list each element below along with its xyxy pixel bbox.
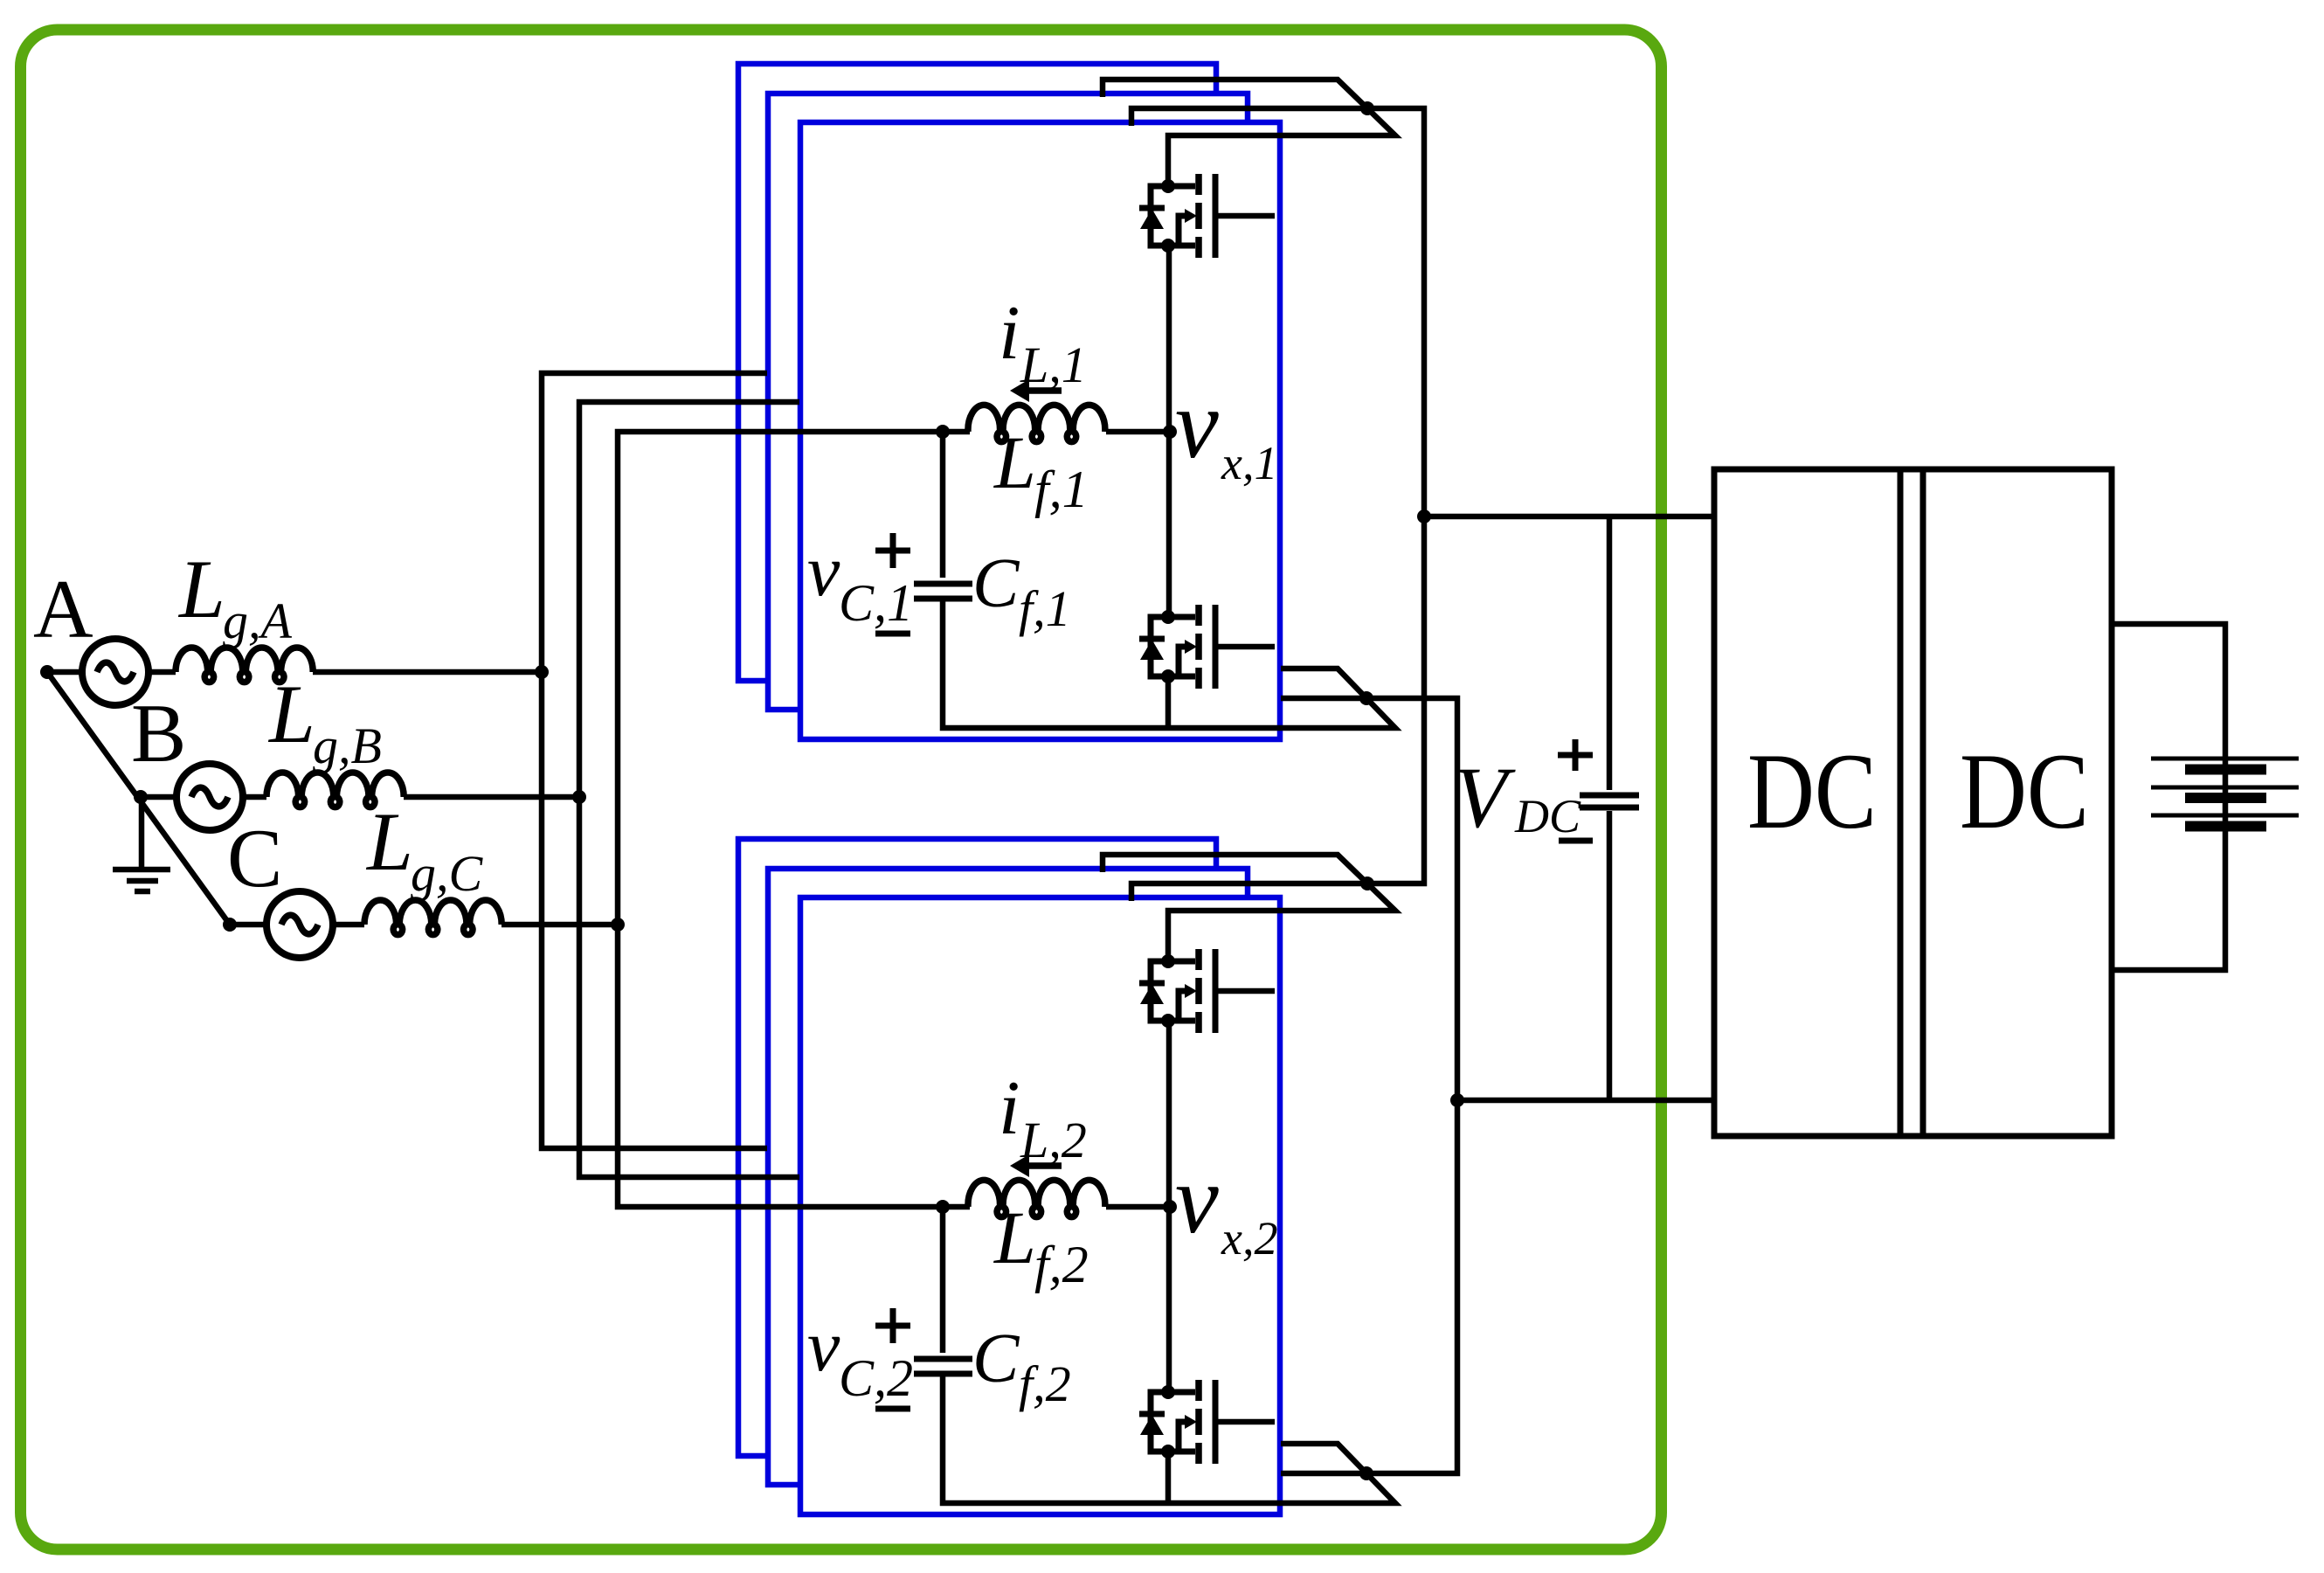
junction bottom bus module 2 (1359, 1466, 1373, 1480)
wire phase C bus bracket (618, 432, 970, 1207)
inductor Lf,1 (968, 405, 1105, 441)
wire source stub module 1 (1165, 676, 1172, 728)
svg-text:A: A (33, 563, 93, 655)
capacitor VDC (1580, 795, 1639, 807)
wire A dot to source (47, 669, 82, 676)
wire dc plus to converter (1424, 514, 1714, 520)
wire cap to bottom rail module 2 (943, 1376, 1395, 1503)
wire dc plus vertical bus (1131, 108, 1424, 901)
wire top bus back layer module 1 (1103, 80, 1395, 186)
converter module 1 front box (800, 122, 1280, 739)
wire dc cap bottom lead (1607, 811, 1613, 1100)
wire inductor node to cap module 1 (940, 432, 946, 578)
wire dc cap top lead (1607, 516, 1613, 790)
wire vx rail up module 2 (1166, 1022, 1172, 1207)
wire vx rail down module 1 (1166, 432, 1172, 617)
wire phase B to bus (404, 794, 579, 800)
transistor bottom mosfet module 2 (1139, 1380, 1275, 1464)
node vx,2 (1163, 1200, 1177, 1214)
plus sign vC,1 (875, 533, 910, 568)
transistor bottom mosfet module 1 (1139, 605, 1275, 689)
wire vx rail up module 1 (1166, 246, 1172, 432)
junction inductor node module 1 (936, 425, 950, 439)
svg-text:VDC: VDC (1454, 749, 1581, 846)
minus sign VDC (1559, 838, 1593, 844)
capacitor Cf,2 (914, 1359, 972, 1374)
arrow iL,1 (1027, 387, 1062, 394)
wire source A to coil (149, 669, 176, 676)
junction dc plus (1417, 509, 1431, 523)
svg-text:Lg,C: Lg,C (365, 795, 484, 902)
inductor Lg,A (176, 648, 313, 683)
wire C dot to source (230, 922, 266, 928)
wire phase C to bus (501, 922, 618, 928)
svg-text:Lg,B: Lg,B (267, 668, 382, 774)
wire dc minus to converter (1457, 1098, 1714, 1104)
svg-text:C: C (227, 812, 282, 904)
transistor top mosfet module 2 (1139, 949, 1275, 1033)
junction dc minus (1450, 1093, 1464, 1107)
wire neutral diagonal A-B-C (47, 672, 230, 925)
wire dc minus vertical bus (1281, 698, 1457, 1473)
transistor top mosfet module 1 (1139, 174, 1275, 258)
svg-text:DC: DC (1960, 731, 2089, 851)
wire top bus back layer module 2 (1103, 855, 1395, 961)
junction phase A bus (535, 665, 549, 679)
wire source C to coil (333, 922, 364, 928)
wire coil to vx module 2 (1106, 1204, 1170, 1210)
dc-dc converter U1 (1714, 469, 2112, 1136)
node B (phase B terminal) (134, 790, 148, 804)
ac source B (176, 764, 243, 830)
dc-dc converter divider (1900, 469, 1923, 1136)
node A (phase A terminal) (40, 665, 54, 679)
minus sign vC,2 (875, 1406, 910, 1412)
wire coil to vx module 1 (1106, 429, 1170, 435)
junction bottom bus module 1 (1359, 691, 1373, 705)
converter module 2 middle box (768, 869, 1248, 1485)
plus sign vC,2 (875, 1308, 910, 1343)
battery BT1 (2151, 759, 2299, 815)
inductor Lg,B (266, 773, 404, 807)
wire phase B bus bracket (579, 402, 799, 1177)
junction phase C bus (611, 918, 625, 932)
ac source C (266, 891, 333, 958)
svg-text:B: B (131, 687, 186, 780)
wire B dot to source (141, 794, 176, 800)
converter module 2 back box (738, 839, 1216, 1456)
green system boundary (21, 30, 1662, 1549)
inductor Lf,2 (968, 1180, 1105, 1216)
svg-text:DC: DC (1747, 731, 1877, 851)
node C (phase C terminal) (223, 918, 237, 932)
plus sign VDC (1558, 739, 1593, 771)
junction inductor node module 2 (936, 1200, 950, 1214)
wire vx rail down module 2 (1166, 1207, 1172, 1392)
junction phase B bus (572, 790, 586, 804)
ac source A (82, 639, 149, 705)
wire cap to bottom rail module 1 (943, 601, 1395, 728)
junction top bus module 1 (1360, 101, 1374, 115)
inductor Lg,C (364, 900, 501, 935)
ground (113, 797, 170, 891)
junction top bus module 2 (1360, 877, 1374, 890)
node vx,1 (1163, 425, 1177, 439)
capacitor Cf,1 (914, 584, 972, 599)
svg-text:Lg,A: Lg,A (177, 543, 293, 649)
wire phase A to bus (313, 669, 542, 676)
converter module 2 front box (800, 897, 1280, 1514)
converter module 1 back box (738, 64, 1216, 681)
wire phase A bus bracket (542, 373, 767, 1148)
wire source B to coil (243, 794, 266, 800)
converter module 1 middle box (768, 94, 1248, 710)
wire source stub module 2 (1165, 1452, 1172, 1503)
wire battery positive (2112, 624, 2225, 970)
minus sign vC,1 (875, 631, 910, 637)
wire inductor node to cap module 2 (940, 1207, 946, 1353)
arrow iL,2 (1027, 1162, 1062, 1169)
